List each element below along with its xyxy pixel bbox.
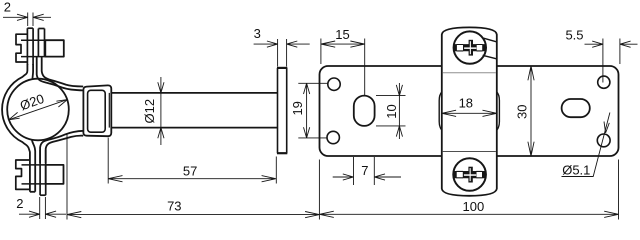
strap band A bottom cap xyxy=(30,191,35,193)
strap band B bottom cap xyxy=(40,194,46,196)
bolt plate top left edge xyxy=(37,29,39,58)
rod top edge xyxy=(111,92,277,94)
svg-text:Ø5.1: Ø5.1 xyxy=(562,162,590,177)
dim 19 top tick xyxy=(298,82,328,84)
bolt head bottom xyxy=(46,165,64,184)
hole bottom-right xyxy=(597,134,610,147)
slot left xyxy=(354,96,375,126)
dim 30 line with arrows xyxy=(528,66,534,156)
dim 73 extension lines xyxy=(67,133,319,220)
dim 7 extension lines xyxy=(354,157,375,185)
clamp strap right lower inner xyxy=(40,131,84,163)
bracket bulge right xyxy=(497,92,500,130)
boss outer xyxy=(83,85,111,136)
bolt shank top lower line xyxy=(21,56,45,58)
serrated strip top xyxy=(16,34,28,62)
screw top slot band outline xyxy=(457,45,483,51)
plate edge-on left line xyxy=(277,68,279,153)
plate edge-on top cap xyxy=(277,67,287,69)
screw top cross arm xyxy=(469,40,473,56)
dim 10 extension lines xyxy=(376,96,406,126)
dim 73 line with arrows xyxy=(67,212,319,218)
bolt head top xyxy=(45,40,64,56)
svg-text:10: 10 xyxy=(384,104,399,118)
dim 2 top arrows xyxy=(3,14,51,20)
dim O5.1 leader line xyxy=(562,113,610,177)
clamp strap right upper outer xyxy=(42,57,83,87)
screw bottom white recess slits xyxy=(464,174,476,176)
dim O20 arrowheads xyxy=(9,100,68,120)
clamp strap right lower outer xyxy=(46,136,83,163)
screw top connector lines xyxy=(483,38,497,59)
bolt shank bottom upper line xyxy=(22,164,46,166)
dim 2 bottom arrows xyxy=(19,211,66,217)
svg-text:7: 7 xyxy=(361,163,368,178)
serrated strip bottom xyxy=(16,160,30,189)
dim 18 line with arrows xyxy=(442,110,497,116)
strap band B bottom left edge xyxy=(39,150,41,195)
dim 5.5 extension lines xyxy=(603,39,620,83)
screw bottom circle xyxy=(453,158,486,191)
dim O5.1 arrowhead xyxy=(604,122,609,133)
dim 15 extension lines xyxy=(321,39,365,96)
screw top white recess slits xyxy=(464,47,476,49)
screw bottom slot band outline xyxy=(456,171,482,177)
hole top-right xyxy=(598,76,610,88)
strap end band top left edge xyxy=(26,28,28,65)
bolt shank bottom lower line xyxy=(22,183,46,185)
svg-text:Ø20: Ø20 xyxy=(18,91,46,114)
svg-text:3: 3 xyxy=(254,26,261,41)
bracket internal upper line xyxy=(443,72,496,74)
screw top slot black segments xyxy=(453,44,486,51)
bolt shank top upper line xyxy=(21,39,45,41)
dim 3 extension lines xyxy=(278,39,287,67)
dim 7 arrows xyxy=(333,174,401,180)
dim 2 bottom extension lines xyxy=(40,197,46,219)
boss inner socket xyxy=(88,90,106,132)
svg-text:19: 19 xyxy=(290,101,305,115)
plate edge-on bottom cap xyxy=(277,152,287,154)
bolt plate top cap xyxy=(38,28,44,30)
svg-text:73: 73 xyxy=(167,199,181,214)
hole bottom-left xyxy=(327,131,339,143)
hole top-left xyxy=(328,78,340,90)
svg-text:15: 15 xyxy=(335,27,349,42)
screw bottom slot black segments xyxy=(453,171,486,178)
dim 100 line with arrows xyxy=(320,211,619,217)
oval hole right xyxy=(562,99,590,117)
screw top circle xyxy=(454,31,486,63)
dim 57 extension lines xyxy=(108,138,276,184)
dim O20 diameter line xyxy=(9,100,68,120)
svg-text:Ø12: Ø12 xyxy=(142,99,157,124)
bracket body xyxy=(442,27,497,195)
screw bottom cross arm xyxy=(468,167,472,183)
clamp inner strap upper-left neck xyxy=(31,64,34,80)
rod bottom edge xyxy=(111,127,277,129)
svg-text:2: 2 xyxy=(4,0,11,14)
dim 5.5 arrows xyxy=(585,41,638,47)
dim 10 line and arrows xyxy=(396,83,402,139)
bracket bulge left xyxy=(439,92,442,130)
svg-text:18: 18 xyxy=(459,96,473,111)
strap end band top right edge xyxy=(32,28,34,65)
pipe circle O20 xyxy=(7,79,69,141)
svg-text:2: 2 xyxy=(16,196,23,211)
strap end band top cap xyxy=(27,27,33,29)
boss lip line xyxy=(108,93,110,128)
svg-text:100: 100 xyxy=(463,199,485,214)
clamp inner strap lower-left neck xyxy=(32,140,35,192)
plate edge-on right line xyxy=(286,68,288,153)
svg-text:30: 30 xyxy=(515,104,530,118)
clamp outer strap left arc xyxy=(2,64,30,192)
dim 100 right extension line xyxy=(618,160,620,220)
clamp strap right upper inner xyxy=(37,57,84,90)
dim 19 line with arrows xyxy=(304,83,310,138)
svg-text:5.5: 5.5 xyxy=(565,27,583,42)
bracket internal lower line xyxy=(443,151,496,153)
plate front view xyxy=(320,66,619,156)
dim O12 line xyxy=(160,77,162,145)
dim 57 line with arrows xyxy=(108,176,276,182)
dim 3 arrows xyxy=(254,41,310,47)
bolt plate top right edge xyxy=(44,29,46,58)
svg-text:57: 57 xyxy=(183,164,197,179)
dim O12 arrows xyxy=(158,82,164,138)
dim 19 bottom tick xyxy=(298,137,327,139)
dim 15 line with arrows xyxy=(321,41,365,47)
strap band B bottom right edge xyxy=(45,150,47,195)
dim 2 top extension lines xyxy=(28,13,33,27)
